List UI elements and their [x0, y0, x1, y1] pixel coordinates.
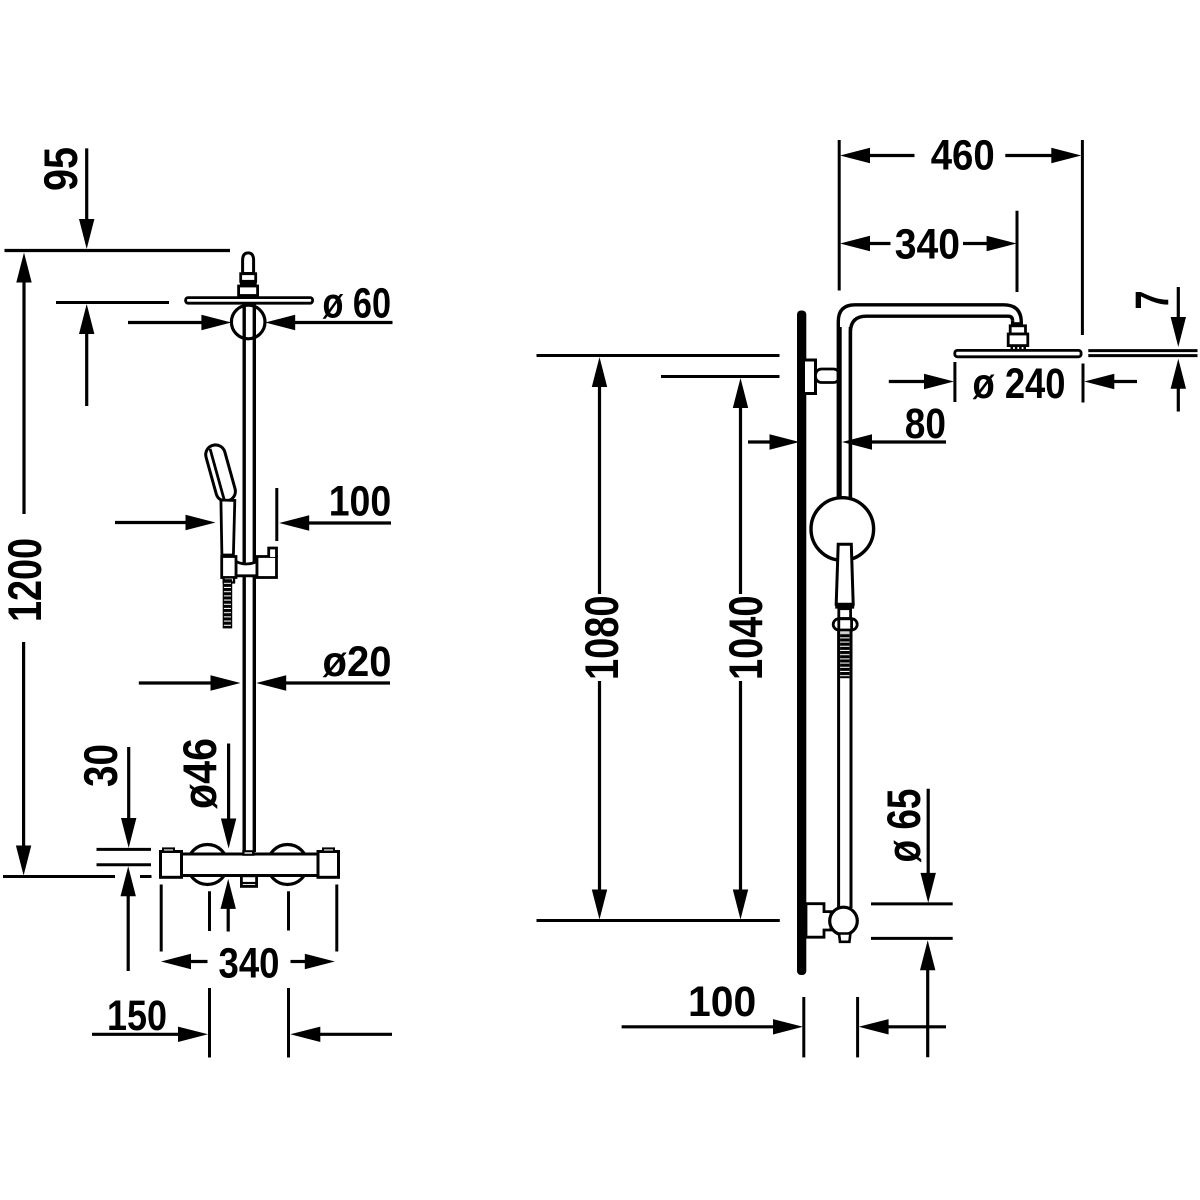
hand shower handle side — [836, 544, 853, 604]
dim 95 line upper — [85, 148, 88, 221]
dim 1040 arrow down — [733, 890, 748, 920]
dim 340 line left — [190, 960, 208, 963]
svg-text:ø46: ø46 — [173, 738, 226, 809]
top knob dark band — [240, 281, 257, 286]
dim ø240 arrow right — [924, 374, 954, 389]
dim ø60 arrow right — [201, 315, 231, 330]
dim ø240 ext line right — [1082, 364, 1085, 403]
nut knurl 4 — [1023, 346, 1026, 350]
nut knurl 2 — [1015, 346, 1018, 350]
svg-text:340: 340 — [219, 940, 280, 988]
dim 30 tick lower — [97, 863, 152, 866]
bar outlet below — [241, 876, 256, 887]
dim ø65 line lower — [926, 969, 929, 1057]
head plate front — [186, 298, 313, 304]
dim 340 ext line left — [160, 885, 163, 952]
dim 1080 line upper — [598, 386, 601, 595]
top knob base band — [241, 295, 259, 298]
dim 100R ext line right — [856, 997, 859, 1057]
dim ø20 line left — [139, 681, 212, 684]
hose nut left bead — [833, 619, 844, 630]
dim ø240 line left — [889, 380, 926, 383]
dim 100 arrow left — [279, 515, 309, 530]
dim 100 arrow right — [186, 515, 216, 530]
svg-text:1040: 1040 — [719, 596, 772, 681]
dim 340R arrow right — [987, 236, 1017, 251]
handle lower rect — [839, 609, 851, 619]
dim 7 line lower — [1177, 388, 1180, 412]
valve ball side — [830, 907, 858, 935]
dim 7 tick lower — [1088, 354, 1197, 357]
dim 150 ext right upper — [287, 891, 290, 930]
holder mid block — [236, 562, 257, 576]
dim ø20 arrow right — [211, 675, 241, 690]
dim 150 line right — [319, 1033, 392, 1036]
dim 1080 arrow down — [592, 890, 607, 920]
dim 340R line right — [963, 242, 989, 245]
wall bracket upper — [804, 360, 816, 394]
dim 460 ext line right — [1081, 140, 1084, 335]
hose tube right edge — [850, 631, 853, 908]
valve knob circle left — [188, 845, 228, 885]
dim ø240 line right — [1113, 380, 1137, 383]
dim 1200 arrow up — [16, 253, 31, 283]
hand shower handle — [221, 500, 235, 555]
dim ø65 line upper — [927, 789, 930, 876]
dim 95 arrow down — [79, 219, 94, 249]
svg-text:460: 460 — [931, 131, 995, 179]
dim 1080/1040 bottom reference line — [537, 919, 780, 922]
shower arm inner edge — [850, 316, 1012, 499]
hose corrugated side — [840, 633, 849, 678]
dim 100 line left — [115, 521, 188, 524]
svg-text:1080: 1080 — [575, 596, 628, 681]
top reference line — [5, 249, 231, 252]
dim 1080 top reference line — [537, 354, 780, 357]
dim 150 ext right lower — [287, 988, 290, 1058]
dim 150 line left — [92, 1033, 180, 1036]
svg-text:30: 30 — [74, 744, 127, 787]
svg-text:ø 65: ø 65 — [877, 789, 930, 863]
dim 150 ext left upper — [208, 891, 211, 931]
svg-text:100: 100 — [688, 978, 756, 1026]
dim 1040 line lower — [739, 681, 742, 891]
dim 150 arrow right — [178, 1027, 208, 1042]
dim 460 arrow right — [1051, 148, 1081, 163]
svg-text:ø 60: ø 60 — [323, 280, 392, 328]
dim 460 line left — [869, 154, 915, 157]
ball joint circle — [231, 305, 265, 339]
dim ø65 tick lower — [871, 937, 953, 940]
dim 80 line right — [871, 440, 946, 443]
dim ø20 line right — [285, 681, 390, 684]
head connector band — [1011, 322, 1023, 326]
riser pipe right edge (side) — [849, 327, 852, 499]
dim 340 ext line right — [335, 885, 338, 952]
head connector collar — [1010, 326, 1025, 334]
svg-text:100: 100 — [329, 477, 392, 525]
bottom reference line dash — [140, 875, 152, 878]
svg-text:ø20: ø20 — [323, 638, 392, 686]
nut knurl 3 — [1019, 346, 1022, 350]
dim 100 tick — [275, 488, 278, 541]
dim 80 line left — [748, 440, 771, 443]
dim 95 line lower — [85, 332, 88, 406]
dim 30 line lower — [127, 895, 130, 971]
dim ø65 arrow down — [921, 873, 936, 903]
dim 150 arrow left — [290, 1027, 320, 1042]
dim ø46 arrow down — [221, 819, 236, 849]
head-top reference line — [56, 301, 169, 304]
svg-text:1200: 1200 — [0, 538, 51, 622]
handle bottom line — [835, 605, 854, 608]
holder hand clamp — [222, 557, 236, 578]
hose corrugated front — [223, 580, 231, 628]
dim 100 line right — [308, 521, 391, 524]
dim 100R arrow left — [859, 1019, 889, 1034]
dim 80 arrow left — [842, 434, 872, 449]
dim 460 line right — [1005, 154, 1052, 157]
dim 460 ext line left — [838, 140, 841, 291]
head plate side — [955, 350, 1081, 356]
top knob cap — [243, 253, 254, 274]
bottom reference line — [3, 875, 115, 878]
mixer bar left cap — [161, 852, 182, 878]
dim 1200 arrow down — [16, 846, 31, 876]
valve knob circle right — [268, 845, 308, 885]
dim 1080 line lower — [598, 681, 601, 891]
dim 100R ext line left — [802, 997, 805, 1057]
dim ø60 arrow left — [265, 315, 295, 330]
dim 7 arrow down — [1171, 317, 1186, 347]
mixer bar body — [182, 854, 319, 876]
dim 1040 top reference line — [661, 375, 780, 378]
dim ø60 line right — [294, 321, 392, 324]
mixer bar right cap — [318, 852, 339, 878]
pipe-bar collar — [242, 850, 254, 856]
holder hook — [269, 548, 277, 557]
hose tube left edge — [837, 631, 840, 908]
dim 1040 line upper — [739, 407, 742, 595]
dim 340R ext line right — [1016, 211, 1019, 292]
dim 1200 line upper — [22, 281, 25, 514]
dim 7 tick upper — [1088, 349, 1197, 352]
wall line — [797, 311, 806, 976]
dim 340R line left — [869, 242, 891, 245]
dim 95 arrow up — [79, 304, 94, 334]
dim 340R arrow left — [840, 236, 870, 251]
dim 1040 arrow up — [733, 378, 748, 408]
bracket pin — [816, 369, 840, 383]
riser pipe right edge (front) — [253, 303, 256, 852]
hose connector front — [224, 578, 235, 583]
dim 1080 arrow up — [592, 357, 607, 387]
dim 460 arrow left — [840, 148, 870, 163]
dim ø60 line left — [128, 321, 203, 324]
dim 30 line upper — [127, 747, 130, 821]
hose nut right bead — [846, 619, 857, 630]
dim ø65 tick upper — [871, 902, 953, 905]
pipe-bar collar inner line — [245, 852, 253, 854]
holder right block — [257, 557, 277, 578]
left cap tab — [163, 848, 174, 851]
dim 100R line left — [622, 1025, 775, 1028]
hand shower head — [203, 443, 237, 504]
dim 30 arrow up — [121, 866, 136, 896]
head connector neck left — [1011, 321, 1014, 327]
dim 100R line right — [888, 1025, 946, 1028]
right cap tab — [323, 848, 334, 851]
dim ø46 line lower — [227, 908, 230, 932]
dim 150 ext left lower — [208, 988, 211, 1058]
hose nut body — [839, 619, 852, 630]
holder ball circle side — [811, 498, 874, 561]
dim ø240 arrow left — [1084, 374, 1114, 389]
dim ø46 line upper — [227, 744, 230, 821]
valve bracket side — [806, 904, 831, 938]
dim ø240 ext line left — [953, 362, 956, 402]
svg-text:95: 95 — [34, 147, 87, 191]
dim 7 line upper — [1177, 287, 1180, 319]
bar outlet line — [241, 882, 256, 884]
dim ø65 arrow up — [920, 940, 935, 970]
dim ø46 arrow up — [221, 879, 236, 909]
dim ø20 arrow left — [256, 675, 286, 690]
dim 30 tick upper — [97, 848, 152, 851]
shower arm outer edge — [838, 305, 1021, 499]
dim 340 line right — [291, 960, 306, 963]
dim 80 arrow right — [770, 434, 800, 449]
nut knurl 1 — [1010, 346, 1013, 350]
top knob collar — [241, 274, 256, 282]
svg-text:7: 7 — [1126, 291, 1179, 310]
dim 7 arrow up — [1171, 359, 1186, 389]
riser pipe left edge (side) — [838, 327, 841, 499]
dim 100R arrow right — [773, 1019, 803, 1034]
dim 1200 line lower — [22, 642, 25, 848]
head connector neck right — [1020, 323, 1023, 328]
dim 30 arrow down — [121, 818, 136, 848]
riser pipe left edge (front) — [242, 303, 245, 852]
top knob nut — [239, 286, 258, 296]
svg-text:340: 340 — [895, 221, 960, 269]
head connector nut — [1008, 334, 1028, 346]
dim 340 arrow right — [305, 954, 335, 969]
dim 340 arrow left — [161, 954, 191, 969]
valve outlet below — [839, 934, 850, 942]
svg-text:ø 240: ø 240 — [973, 360, 1066, 408]
